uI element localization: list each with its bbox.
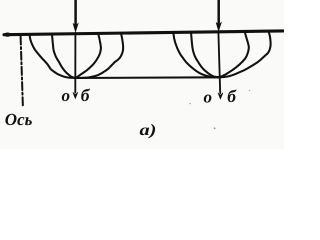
- left funnel outer-right curve: [75, 33, 123, 78]
- right funnel outer-left curve: [173, 32, 218, 77]
- svg-text:б: б: [81, 85, 91, 105]
- svg-text:Ось: Ось: [5, 110, 33, 129]
- left funnel inner-left curve: [52, 34, 75, 78]
- left funnel axis line: [74, 33, 76, 93]
- svg-text:о: о: [204, 88, 213, 107]
- connector line between funnel bottoms: [75, 76, 218, 79]
- load arrow F1 shaft (top): [74, 0, 77, 25]
- right funnel inner-left curve: [191, 32, 218, 77]
- left funnel bottom arrowhead: [73, 92, 78, 98]
- load arrow F2 shaft (top): [217, 0, 220, 24]
- scan speck: [189, 103, 191, 105]
- scan speck: [214, 127, 216, 129]
- svg-text:о: о: [62, 86, 71, 105]
- surface line left end blob: [4, 33, 11, 37]
- left funnel inner-right curve: [75, 34, 101, 79]
- surface line: [4, 31, 283, 35]
- svg-text:а): а): [140, 122, 157, 139]
- axis of symmetry (dash-dot): [21, 37, 23, 108]
- scan speck: [249, 90, 251, 92]
- svg-text:б: б: [227, 86, 237, 106]
- load arrow F2 head: [216, 23, 221, 32]
- right funnel outer-right curve: [218, 31, 270, 77]
- load arrow F1 head: [73, 23, 78, 32]
- right funnel bottom arrowhead: [218, 93, 223, 99]
- right funnel inner-right curve: [218, 32, 249, 78]
- left funnel outer-left curve: [30, 35, 76, 79]
- right funnel axis line: [218, 32, 220, 93]
